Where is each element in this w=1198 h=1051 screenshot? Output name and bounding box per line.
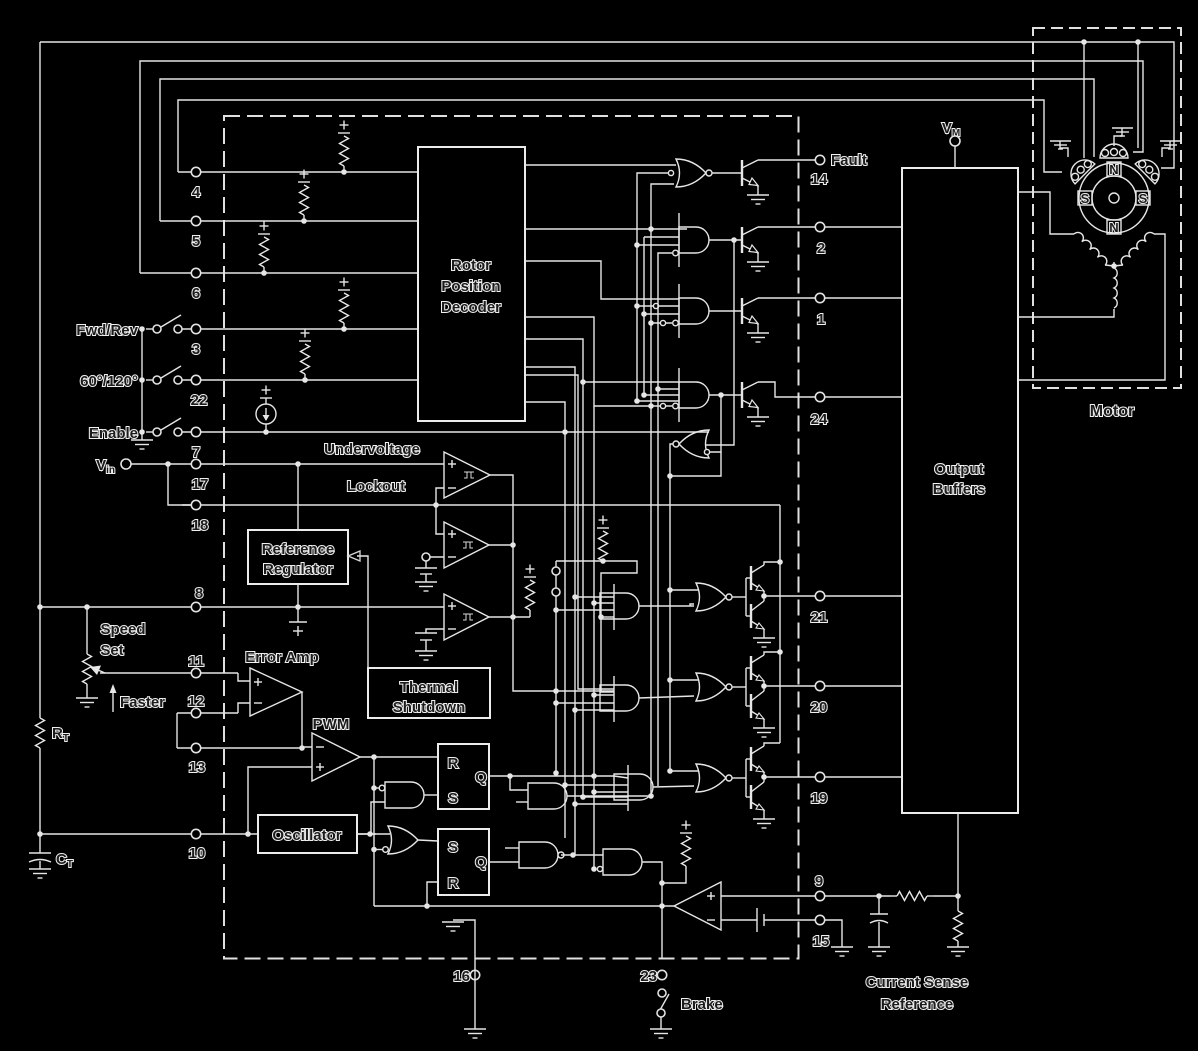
wire: aux line y=561 staircase [556, 561, 637, 692]
wire: stub AND-A in2 [644, 236, 679, 238]
wire: pin 13 row [177, 747, 302, 749]
svg-text:Set: Set [100, 642, 123, 659]
wire: comp2 out [489, 544, 513, 546]
wire: decoder out d6 [525, 402, 565, 432]
wire: pin 22 row [182, 379, 418, 381]
winding bottom [1114, 268, 1117, 308]
wire: comp1 minus to pin18 [436, 488, 444, 534]
svg-text:15: 15 [813, 933, 830, 950]
wire: error out feedback [302, 692, 312, 747]
wire: L1 out to latch1 [424, 794, 438, 796]
wire: bus x=658 [658, 253, 672, 786]
wire: pin16 to ground [474, 958, 476, 1029]
wire: pin 20 node [763, 681, 765, 691]
wire: gate A out [709, 239, 742, 241]
wire: hall feed x=1084 [1083, 42, 1085, 158]
wire: top supply rail y=42 [40, 42, 1174, 168]
svg-text:Faster: Faster [120, 694, 165, 711]
wire: decoder out d1 (fault gate) [525, 164, 676, 166]
wire: pin 12 row [177, 712, 238, 714]
oscillator box [258, 815, 357, 853]
svg-text:Oscillator: Oscillator [272, 827, 341, 844]
wire: decoder out d7 [525, 375, 614, 689]
wire: pin 21 node [763, 591, 765, 601]
AND gate D19 [614, 774, 653, 800]
transistor Q14 [742, 160, 758, 186]
wire: N21 top input [670, 589, 698, 591]
comparator U3 [444, 594, 489, 640]
svg-text:S: S [1139, 191, 1148, 206]
pin 7 [191, 427, 200, 436]
junction: grev dots [667, 587, 673, 593]
hall sensor left [1065, 154, 1095, 184]
pin 18 [191, 500, 200, 509]
wire: fault third input x=651 [651, 184, 674, 796]
wire: brake to ground [660, 1017, 662, 1029]
wire: pin 17 row (Vin) [131, 463, 444, 465]
wire: bus x=583 lower [582, 382, 584, 797]
svg-text:R: R [448, 755, 459, 772]
wire: pin12-13 link [176, 713, 178, 748]
wire: L2 out to latch2 [418, 840, 438, 841]
latch 1 (RQ S) [438, 744, 489, 809]
wire: N20 out [732, 686, 746, 688]
wire: bus x=565 lower [564, 432, 566, 838]
svg-text:R: R [448, 875, 459, 892]
pin 24 [815, 392, 824, 401]
latch 2 (SQ R) [438, 829, 489, 895]
wire: sensor line y=79 [160, 79, 1094, 221]
wire: pin 18 drop [168, 464, 191, 505]
wire: N21 out to bases [732, 596, 746, 598]
AND gate D20 [600, 685, 639, 711]
svg-text:17: 17 [192, 476, 209, 493]
wire: L3 top input [510, 776, 528, 790]
wire: latch2 Q to L4 [489, 861, 519, 863]
wire: aux vertical x=556 [555, 561, 557, 773]
pin 15 [815, 915, 824, 924]
ground: Q2 emitter [757, 253, 759, 262]
pin 14 [815, 155, 824, 164]
ground: Q14 emitter [757, 186, 759, 195]
internal ground pin16 [453, 920, 475, 958]
wire: hall feed x=1138 [1137, 42, 1139, 148]
svg-text:12: 12 [188, 693, 205, 710]
wire: D19 inputs [614, 776, 628, 778]
svg-text:Q: Q [475, 769, 487, 786]
wire: pin 5 row [160, 220, 418, 222]
svg-text:Motor: Motor [1090, 403, 1134, 420]
wire: latch2 R input [427, 882, 438, 906]
hall sensor top [1100, 144, 1128, 158]
svg-text:24: 24 [811, 411, 828, 428]
wire: phase C feed [1018, 234, 1165, 380]
resistor pull-up comp3 out [526, 580, 535, 610]
comparator current sense [674, 882, 721, 930]
wire: vin to ref reg [297, 464, 299, 530]
wire: pin 14 row [758, 159, 815, 161]
reference regulator box [248, 530, 348, 584]
svg-text:Reference: Reference [881, 996, 954, 1013]
svg-text:Thermal: Thermal [400, 679, 458, 696]
pin 2 [815, 222, 824, 231]
wire: pin 15 row [764, 919, 815, 921]
wire: D21 inputs [575, 596, 614, 598]
wire: pin11 to error+ [238, 673, 250, 681]
wire: pin 3 row [182, 328, 418, 330]
wire: L3 out [567, 795, 651, 797]
wire: N21 in2 jog [690, 604, 694, 606]
pin 3 [191, 324, 200, 333]
rotor magnet [1078, 162, 1150, 235]
svg-text:16: 16 [453, 968, 470, 985]
wire: pin 19 node [763, 772, 765, 782]
svg-text:Shutdown: Shutdown [393, 699, 465, 716]
capacitor sense filter [878, 896, 880, 914]
svg-text:3: 3 [192, 341, 200, 358]
pin 6 [191, 268, 200, 277]
wire: pin10 to pwm+ [248, 767, 312, 834]
resistor pull-up pin4 [341, 169, 347, 175]
wire: pwm out [360, 756, 438, 758]
resistor pull-up aux [599, 531, 608, 561]
pin 17 [191, 459, 200, 468]
IC boundary dashed border [224, 116, 799, 959]
svg-text:21: 21 [811, 609, 828, 626]
wire: pin 6 row [140, 272, 418, 274]
svg-text:2: 2 [817, 240, 825, 257]
wire: pin 2 row [758, 226, 902, 228]
pin 20 [815, 681, 824, 690]
totem pair T19 [745, 759, 747, 797]
wire: L5 out to pin23 node [642, 862, 662, 958]
ref output symbol [297, 607, 299, 622]
wire: pwm drop x=374 [373, 757, 375, 906]
svg-text:Buffers: Buffers [933, 481, 986, 498]
ground: switch common [131, 440, 153, 449]
wire: pin12 to error- [238, 703, 250, 713]
svg-text:23: 23 [640, 968, 657, 985]
transistor Q24 [742, 382, 758, 408]
svg-text:S: S [448, 839, 458, 856]
wire: T20 collector to rail [764, 652, 780, 655]
wire: pin 18 row [182, 504, 780, 506]
wire: T21 collector to rail [764, 562, 780, 565]
AND gate L3 [528, 783, 567, 809]
wire: L4 in1 [505, 847, 519, 849]
svg-text:S: S [1081, 191, 1090, 206]
wire: pin15 to ground [825, 920, 842, 947]
svg-text:Output: Output [934, 461, 983, 478]
svg-text:19: 19 [811, 790, 828, 807]
battery ref current sense [721, 919, 757, 921]
wire: bus x=575 lower [574, 597, 576, 855]
NOR gate fault [676, 159, 706, 187]
wire: L4 out to L5 [561, 854, 603, 856]
svg-text:13: 13 [189, 759, 206, 776]
svg-text:1: 1 [817, 311, 825, 328]
wire: phase B feed [1018, 309, 1114, 317]
comparator U1 undervoltage [444, 452, 490, 498]
wire: phase A feed [1018, 192, 1074, 234]
wire: stub AND-A in3 [637, 244, 679, 246]
NOR gate N19 [696, 764, 726, 792]
wire: latch1 Q out [489, 775, 614, 777]
svg-text:4: 4 [192, 184, 201, 201]
wire: bus x=644 [644, 237, 679, 395]
svg-text:Undervoltage: Undervoltage [324, 441, 420, 458]
motor dashed box [1033, 28, 1181, 388]
wire: gate B out [709, 310, 742, 312]
ground: T20 emitter [763, 719, 765, 728]
wire: D20 out [639, 696, 694, 698]
wire: stub AND-B in2 [637, 305, 679, 307]
svg-text:10: 10 [189, 845, 206, 862]
faster arrow [112, 690, 114, 712]
wire: N19 top input [670, 770, 698, 772]
svg-text:Rotor: Rotor [451, 257, 491, 274]
wire: thermal shutdown to ref reg arrow [357, 556, 368, 668]
wire: pin 9 row [721, 895, 815, 897]
pin 16 [470, 970, 479, 979]
AND gate C (pin24) [679, 382, 709, 408]
svg-text:Speed: Speed [100, 621, 145, 638]
svg-text:9: 9 [815, 873, 823, 890]
wire: osc out [357, 833, 376, 835]
svg-text:PWM: PWM [313, 716, 350, 733]
transistor Q2 [742, 227, 758, 253]
wire: decoder out d3 [525, 261, 679, 299]
svg-text:18: 18 [192, 517, 209, 534]
wire: stub AND-C in3 [658, 388, 679, 390]
ground: hall right [1162, 141, 1170, 157]
wire: decoder out d4 [525, 317, 672, 406]
svg-text:Position: Position [441, 278, 500, 295]
wire: N19 out [732, 777, 746, 779]
wire: D21 out [639, 605, 694, 607]
svg-text:Regulator: Regulator [263, 561, 333, 578]
svg-text:N: N [1109, 220, 1118, 235]
pin 19 [815, 772, 824, 781]
ground: hall top [1114, 128, 1122, 146]
resistor RT [36, 718, 45, 748]
svg-text:Reference: Reference [262, 541, 335, 558]
wire: pin 1 row [758, 297, 902, 299]
output buffers box [902, 168, 1018, 813]
wire: sensor line y=61 [140, 61, 1143, 273]
junction: pin8 row on left rail [37, 604, 43, 610]
svg-text:S: S [448, 790, 458, 807]
resistor pull-up pin6 [261, 270, 267, 276]
current source on enable line [263, 429, 269, 435]
pin 4 [191, 167, 200, 176]
wire: fault bubble feed x=637 [637, 173, 679, 401]
winding right [1121, 232, 1154, 265]
capacitor CT [39, 836, 41, 853]
junction: supply dots on y=42 [1081, 39, 1087, 45]
wire: grev input mid feeder [731, 237, 737, 243]
svg-text:Brake: Brake [681, 996, 723, 1013]
svg-text:7: 7 [192, 444, 200, 461]
wire: pin 24 row [758, 382, 902, 397]
pin 22 [191, 375, 200, 384]
pin 23 [657, 970, 666, 979]
junction: pin10 row on left rail [37, 831, 43, 837]
NOR gate L2 [388, 826, 418, 854]
wire: bus x=594 lower [593, 406, 595, 869]
wire: comparator output bus [490, 475, 614, 691]
pin 5 [191, 216, 200, 225]
svg-text:Decoder: Decoder [441, 299, 501, 316]
wire: gate C out [709, 394, 742, 396]
wire: pin 8 row [40, 606, 444, 608]
wire: fault gate out [712, 172, 742, 174]
svg-text:Lockout: Lockout [347, 478, 405, 495]
resistor pull-up pin22 [302, 377, 308, 383]
wire: left rail x=40 [39, 42, 41, 718]
wire: switch common rail [141, 329, 143, 440]
svg-text:Current Sense: Current Sense [866, 974, 969, 991]
wire: pin 7 row (enable) [182, 431, 709, 433]
wire: current sense line y=906 [374, 905, 674, 907]
resistor pull-up pin5 [301, 218, 307, 224]
resistor pull-up pin23 [682, 836, 691, 866]
totem pair T20 [745, 668, 747, 706]
svg-text:N: N [1109, 162, 1118, 177]
wire: grev out drop x=670 [670, 444, 673, 771]
ground: hall left [1060, 141, 1068, 157]
svg-text:11: 11 [188, 653, 204, 670]
wire: comp2 minus ref [426, 556, 444, 558]
svg-text:Q: Q [475, 854, 487, 871]
ground: T19 emitter [763, 810, 765, 819]
rotor position decoder box [418, 147, 525, 421]
wire: winding connectors [1105, 265, 1114, 266]
hall sensor right [1135, 154, 1165, 184]
NOR gate N21 [696, 583, 726, 611]
ground: T21 emitter [763, 629, 765, 638]
wire: L5 bubble feed [591, 866, 597, 872]
NAND gate L1 [385, 782, 424, 808]
wire: sense node to buffers [957, 813, 959, 911]
ground: Q1 emitter [757, 324, 759, 333]
wire: N20 top input [670, 679, 698, 681]
pin 11 [191, 668, 200, 677]
wire: grev input top feeder [718, 392, 724, 398]
switch brake [658, 989, 666, 997]
wire: osc to nand1 [371, 802, 385, 834]
speed pot [84, 604, 90, 610]
wire: ref reg to pin8 row [297, 584, 299, 607]
wire: totem rail from pin18 [779, 505, 781, 743]
svg-text:14: 14 [811, 171, 828, 188]
wire: stub AND-B in3 [644, 313, 679, 315]
resistor pull-up pin3 [341, 326, 347, 332]
wire: T19 collector to rail [764, 743, 780, 746]
pin 12 [191, 708, 200, 717]
pin 10 [191, 829, 200, 838]
wire: pin9 to sense node [825, 895, 890, 897]
svg-text:20: 20 [811, 699, 828, 716]
wire: D20 inputs [594, 694, 614, 696]
NOR gate N20 [696, 673, 726, 701]
svg-text:22: 22 [191, 392, 208, 409]
NAND gate L4 [519, 842, 558, 868]
pin 9 [815, 891, 824, 900]
pin 1 [815, 293, 824, 302]
junction: winding center [1111, 263, 1117, 269]
AND gate B (pin1) [679, 298, 709, 324]
AND gate D21 [600, 593, 639, 619]
wire: decoder out d6 [525, 367, 575, 597]
svg-text:60°/120°: 60°/120° [80, 373, 138, 390]
resistor sense series [897, 892, 927, 901]
svg-text:Fwd/Rev: Fwd/Rev [76, 322, 138, 339]
AND gate A (pin2) [679, 227, 709, 253]
wire: comp3 minus ref [426, 629, 444, 633]
svg-text:6: 6 [192, 285, 200, 302]
winding left [1074, 232, 1107, 265]
svg-text:Enable: Enable [89, 425, 138, 442]
svg-text:Fault: Fault [831, 152, 867, 169]
transistor Q1 [742, 298, 758, 324]
comparator U2 [444, 522, 489, 568]
wire: pin 11 row (wiper) [100, 672, 238, 674]
totem pair T21 [745, 578, 747, 616]
wire: decoder out d5 [525, 339, 679, 382]
wire: D19 out [653, 786, 694, 787]
wire: comp3 out [489, 616, 530, 618]
pin 21 [815, 591, 824, 600]
junction: ref reg feed [295, 461, 301, 467]
wire: pin 4 row [178, 171, 418, 173]
NAND gate L5 [603, 849, 642, 875]
wire: sensor line y=100 [178, 100, 1062, 172]
pin 8 [191, 602, 200, 611]
pin 13 [191, 743, 200, 752]
wire: L3 in2 [516, 801, 528, 803]
resistor sense shunt [954, 911, 963, 941]
svg-text:8: 8 [195, 585, 203, 602]
svg-text:Error Amp: Error Amp [245, 649, 319, 666]
svg-text:5: 5 [192, 233, 200, 250]
ground: Q24 emitter [757, 408, 759, 417]
wire: pin 10 row [40, 833, 258, 835]
wire: AND-B bubble feed [651, 322, 672, 324]
wire: decoder out d2 (gate A top) [525, 228, 687, 230]
thermal shutdown box [368, 668, 490, 718]
NOR gate reverse (left pointing) [673, 430, 710, 458]
